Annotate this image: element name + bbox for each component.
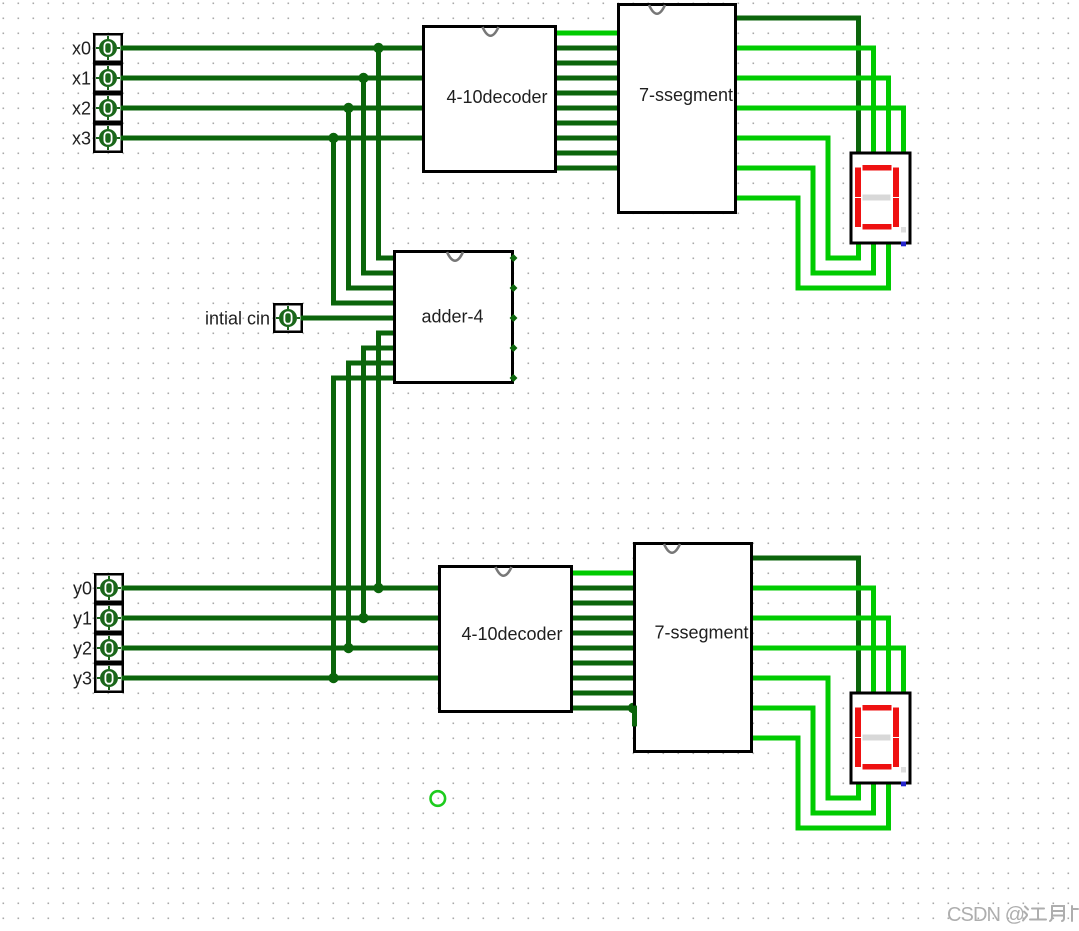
wire decoder1 out6 to 7-ssegment1 in6 xyxy=(553,121,622,126)
label x3 xyxy=(72,129,91,149)
wire 7seg2 out f up xyxy=(886,781,891,831)
wire 7seg1 out f down xyxy=(796,196,801,291)
wire y1 branch into adder b1 xyxy=(361,346,397,351)
wire 7seg2 out f xyxy=(749,736,801,741)
wire decoder1 out2 to 7-ssegment1 in2 xyxy=(553,61,622,66)
input pin x3 (value 0) xyxy=(94,124,122,152)
wire 7seg2 out g xyxy=(749,556,861,561)
svg-text:y0: y0 xyxy=(73,579,92,599)
input pin intial cin (value 0) xyxy=(274,304,302,332)
wire y2 branch down xyxy=(346,361,351,651)
wire x3 branch into adder a3 xyxy=(331,301,397,306)
wire decoder2 out2 to 7-ssegment2 in2 xyxy=(569,601,638,606)
wire 7seg1 out f up xyxy=(886,241,891,291)
wire 7seg1 out a down xyxy=(871,46,876,157)
wire intial cin to adder xyxy=(301,316,398,321)
adder-4 output pin s2 (unconnected) xyxy=(510,314,518,322)
wire 7seg2 out e down xyxy=(811,706,816,816)
wire x1 branch into adder a1 xyxy=(361,271,397,276)
wire stub below decoder2 out9 junction xyxy=(632,706,637,727)
svg-text:y1: y1 xyxy=(73,609,92,629)
wire decoder2 out5 to 7-ssegment2 in5 xyxy=(569,646,638,651)
wire y0 to decoder2 xyxy=(122,586,443,591)
adder-4 output pin s1 (unconnected) xyxy=(510,284,518,292)
wire decoder2 out6 to 7-ssegment2 in6 xyxy=(569,661,638,666)
wire decoder2 out0 to 7-ssegment2 in0 xyxy=(569,571,638,576)
wire 7seg1 out e xyxy=(733,166,816,171)
label intial cin xyxy=(205,309,270,329)
wire 7seg2 out d down xyxy=(826,676,831,801)
watermark CSDN @江 月 xyxy=(947,904,1078,926)
wire decoder1 out0 to 7-ssegment1 in0 xyxy=(553,31,622,36)
wire 7seg1 out c down xyxy=(901,106,906,157)
svg-text:x0: x0 xyxy=(72,39,91,59)
wire x3 to decoder1 xyxy=(121,136,428,141)
svg-text:4-10decoder: 4-10decoder xyxy=(461,624,562,644)
junction y1 branch xyxy=(358,613,368,623)
svg-text:7-ssegment: 7-ssegment xyxy=(639,85,733,105)
wire 7seg2 out c down xyxy=(901,646,906,697)
facing notch of U1 4-10decoder (top) xyxy=(483,27,499,36)
wire 7seg1 out d under xyxy=(826,256,861,261)
svg-text:y2: y2 xyxy=(73,639,92,659)
wire decoder2 out4 to 7-ssegment2 in4 xyxy=(569,631,638,636)
wire 7seg2 out d xyxy=(749,676,831,681)
wire 7seg1 out d down xyxy=(826,136,831,261)
junction x0 branch xyxy=(373,43,383,53)
wire x0 branch down to adder xyxy=(376,46,381,261)
input pin x0 (value 0) xyxy=(94,34,122,62)
svg-text:adder-4: adder-4 xyxy=(421,307,483,327)
label y1 xyxy=(73,609,92,629)
junction x1 branch xyxy=(358,73,368,83)
wire decoder1 out4 to 7-ssegment1 in4 xyxy=(553,91,622,96)
junction decoder2 out9 at 7-ssegment2 pin xyxy=(628,703,638,713)
label y3 xyxy=(73,669,92,689)
junction x2 branch xyxy=(343,103,353,113)
wire decoder1 out9 to 7-ssegment1 in9 xyxy=(553,166,622,171)
wire 7seg2 out d under xyxy=(826,796,861,801)
junction y2 branch xyxy=(343,643,353,653)
subcircuit U4 4-10decoder (bottom) xyxy=(440,567,572,712)
label 7-ssegment xyxy=(654,623,748,643)
wire 7seg2 out b down xyxy=(886,616,891,697)
wire 7seg2 out g down xyxy=(856,556,861,697)
input pin y0 (value 0) xyxy=(95,574,123,602)
wire x1 branch down to adder xyxy=(361,76,366,276)
wire y2 to decoder2 xyxy=(122,646,443,651)
wire decoder1 out5 to 7-ssegment1 in5 xyxy=(553,106,622,111)
label x2 xyxy=(72,99,91,119)
wire x2 branch down to adder xyxy=(346,106,351,291)
subcircuit U2 7-ssegment (top) xyxy=(619,5,736,213)
wire decoder2 out1 to 7-ssegment2 in1 xyxy=(569,586,638,591)
label adder-4 xyxy=(421,307,483,327)
label y2 xyxy=(73,639,92,659)
wire x3 branch down to adder xyxy=(331,136,336,306)
input pin y2 (value 0) xyxy=(95,634,123,662)
wire y3 to decoder2 xyxy=(122,676,443,681)
wire x0 branch into adder a0 xyxy=(376,256,397,261)
wire 7seg1 out e down xyxy=(811,166,816,276)
input pin x1 (value 0) xyxy=(94,64,122,92)
wire x0 to decoder1 xyxy=(121,46,428,51)
wire decoder2 out8 to 7-ssegment2 in8 xyxy=(569,691,638,696)
label x1 xyxy=(72,69,91,89)
svg-text:x2: x2 xyxy=(72,99,91,119)
floating dp pin of DISP1 (blue) xyxy=(901,242,906,247)
floating dp pin of DISP2 (blue) xyxy=(901,782,906,787)
junction y3 branch xyxy=(328,673,338,683)
wire 7seg2 out e under xyxy=(811,811,876,816)
wire 7seg1 out f xyxy=(733,196,801,201)
label 7-ssegment xyxy=(639,85,733,105)
svg-text:x1: x1 xyxy=(72,69,91,89)
svg-text:4-10decoder: 4-10decoder xyxy=(446,87,547,107)
facing notch of U2 7-ssegment (top) xyxy=(649,5,665,14)
facing notch of U3 adder-4 xyxy=(447,252,463,261)
junction x3 branch xyxy=(328,133,338,143)
subcircuit U3 adder-4 xyxy=(395,252,513,383)
wire 7seg1 out d xyxy=(733,136,831,141)
wire 7seg1 out d up xyxy=(856,241,861,261)
wire 7seg1 out g down xyxy=(856,16,861,157)
junction y0 branch xyxy=(373,583,383,593)
wire y0 branch into adder b0 xyxy=(376,331,397,336)
wire 7seg2 out b xyxy=(749,616,891,621)
wire 7seg1 out a xyxy=(733,46,876,51)
wire x2 branch into adder a2 xyxy=(346,286,397,291)
input pin y3 (value 0) xyxy=(95,664,123,692)
wire 7seg2 out e xyxy=(749,706,816,711)
wire 7seg1 out c xyxy=(733,106,906,111)
adder-4 output pin s4 (unconnected) xyxy=(510,374,518,382)
subcircuit U5 7-ssegment (bottom) xyxy=(635,544,752,752)
wire decoder1 out7 to 7-ssegment1 in7 xyxy=(553,136,622,141)
svg-text:y3: y3 xyxy=(73,669,92,689)
input pin x2 (value 0) xyxy=(94,94,122,122)
svg-text:7-ssegment: 7-ssegment xyxy=(654,623,748,643)
unconnected wire end marker (green circle) xyxy=(431,791,446,806)
wire decoder1 out8 to 7-ssegment1 in8 xyxy=(553,151,622,156)
wire 7seg1 out b down xyxy=(886,76,891,157)
adder-4 output pin s3 (unconnected) xyxy=(510,344,518,352)
wire decoder2 out7 to 7-ssegment2 in7 xyxy=(569,676,638,681)
wire decoder2 out9 to 7-ssegment2 in9 xyxy=(569,706,638,711)
wire decoder2 out3 to 7-ssegment2 in3 xyxy=(569,616,638,621)
wire x1 to decoder1 xyxy=(121,76,428,81)
wire y3 branch into adder b3 xyxy=(331,376,397,381)
wire y3 branch down xyxy=(331,376,336,681)
wire y1 branch down xyxy=(361,346,366,621)
input pin y1 (value 0) xyxy=(95,604,123,632)
facing notch of U5 7-ssegment (bottom) xyxy=(664,544,680,553)
7-segment display DISP1 (top) showing 0 xyxy=(851,153,910,243)
wire 7seg2 out a xyxy=(749,586,876,591)
wire y2 branch into adder b2 xyxy=(346,361,397,366)
wire 7seg2 out d up xyxy=(856,781,861,801)
wire y0 branch down xyxy=(376,331,381,591)
wire 7seg2 out a down xyxy=(871,586,876,697)
label 4-10decoder xyxy=(446,87,547,107)
wire 7seg2 out f down xyxy=(796,736,801,831)
wire 7seg1 out b xyxy=(733,76,891,81)
adder-4 output pin s0 (unconnected) xyxy=(510,254,518,262)
wire 7seg2 out f under xyxy=(796,826,891,831)
facing notch of U4 4-10decoder (bottom) xyxy=(496,567,512,576)
label x0 xyxy=(72,39,91,59)
wire 7seg2 out e up xyxy=(871,781,876,816)
svg-text:x3: x3 xyxy=(72,129,91,149)
wire decoder1 out1 to 7-ssegment1 in1 xyxy=(553,46,622,51)
7-segment display DISP2 (bottom) showing 0 xyxy=(851,693,910,783)
label 4-10decoder xyxy=(461,624,562,644)
wire x2 to decoder1 xyxy=(121,106,428,111)
wire y1 to decoder2 xyxy=(122,616,443,621)
wire 7seg1 out e up xyxy=(871,241,876,276)
wire 7seg2 out c xyxy=(749,646,906,651)
wire 7seg1 out f under xyxy=(796,286,891,291)
subcircuit U1 4-10decoder (top) xyxy=(424,27,556,172)
wire 7seg1 out g xyxy=(733,16,861,21)
wire 7seg1 out e under xyxy=(811,271,876,276)
svg-text:intial cin: intial cin xyxy=(205,309,270,329)
svg-text:CSDN @: CSDN @ xyxy=(947,904,1024,926)
label y0 xyxy=(73,579,92,599)
wire decoder1 out3 to 7-ssegment1 in3 xyxy=(553,76,622,81)
